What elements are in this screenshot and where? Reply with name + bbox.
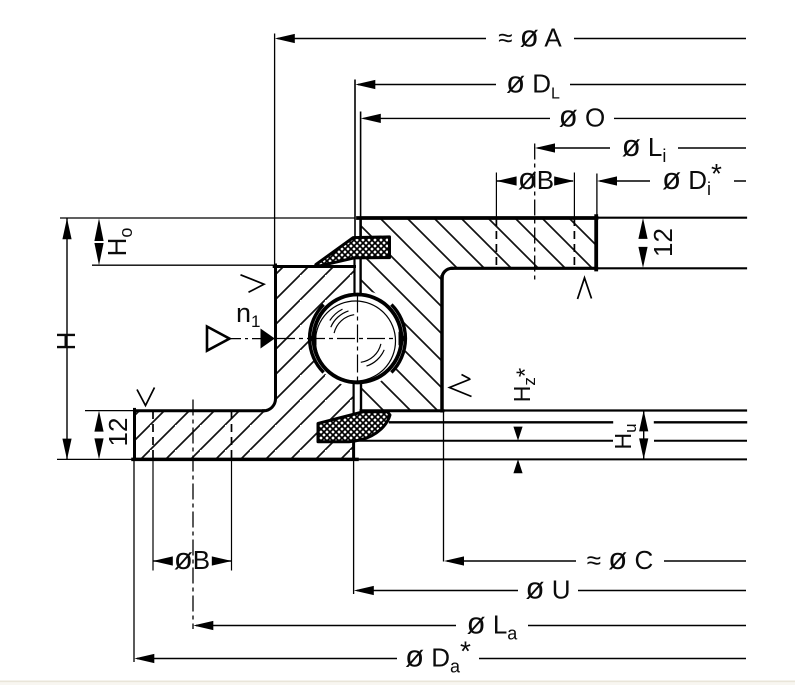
inner ring (right, top-mounted) section fill (361, 218, 595, 411)
extension lines (57, 34, 597, 663)
ext oDL vertical (354, 80, 356, 238)
ext oDi vertical (596, 174, 598, 217)
inner ring flange bottom (452, 267, 597, 270)
svg-text:øB: øB (174, 541, 210, 576)
raceway arc left (310, 305, 324, 373)
ball polish arcs lower-right (361, 344, 384, 366)
arrow oLa (193, 621, 213, 630)
dim oO line (364, 117, 747, 119)
lip right edge (352, 441, 355, 459)
svg-text:H: H (51, 332, 81, 351)
surface finish mark on flange top (137, 388, 155, 406)
inner ring fillet (442, 268, 452, 278)
svg-text:ø O: ø O (559, 99, 605, 134)
dim oU line (357, 590, 746, 592)
arrow Hu down (639, 438, 648, 459)
top bolt hole centerline (534, 144, 536, 284)
svg-text:ø Li: ø Li (622, 128, 667, 166)
ball centerline horizontal (277, 338, 394, 340)
lower seal (318, 412, 390, 442)
dim oLi line (538, 147, 746, 149)
arrow oDa (134, 654, 154, 663)
inner ring top surface (358, 216, 597, 220)
ext oDa vertical (133, 460, 135, 662)
dim oDL line (358, 84, 746, 86)
arrow Hz up (513, 459, 522, 473)
surface finish mark right body (450, 375, 472, 397)
dim oC line (447, 560, 746, 562)
svg-text:12: 12 (648, 228, 678, 257)
arrow H down (62, 439, 71, 460)
outer ring outline (133, 258, 746, 459)
arrow Ho up (94, 218, 103, 241)
ext oB top right (573, 173, 575, 219)
inner ring outline (358, 216, 746, 422)
arrow oA (275, 34, 295, 43)
svg-text:øB: øB (518, 161, 554, 196)
arrow H up (62, 218, 71, 239)
dimension lines (67, 39, 746, 659)
bottom page strip (0, 681, 795, 683)
ext oU vertical (353, 460, 355, 594)
outer ring left edge (274, 265, 277, 399)
ball centerline vertical (357, 295, 359, 383)
arrow Hu up (639, 410, 648, 431)
outer ring fillet (264, 399, 276, 411)
gap left edge above ball (353, 258, 355, 294)
gap right edge seal to ball (359, 258, 361, 294)
arrow 12R up (638, 218, 647, 239)
outer ring flange left edge (133, 409, 136, 459)
svg-text:≈ ø C: ≈ ø C (587, 541, 653, 576)
arrow oB top left (497, 176, 517, 185)
dim oDi line (600, 180, 746, 182)
inner ring recess line y422 (390, 421, 746, 423)
inner ring right edge (594, 216, 598, 269)
raceway cusp right (399, 332, 407, 346)
arrow 12L up (94, 411, 103, 432)
svg-text:ø U: ø U (526, 571, 571, 606)
arrow Ho down (94, 243, 103, 265)
bottom bolt hole dashed right (231, 411, 233, 459)
arrow oDi (597, 176, 617, 185)
ext oO vertical (360, 112, 362, 219)
raceway arc right (391, 305, 405, 373)
gap left edge below ball (353, 383, 355, 423)
dim oLa line (196, 625, 746, 627)
ext Ho bottom horizontal (92, 264, 274, 266)
arrow oDL (355, 80, 375, 89)
bottom bolt hole centerline (192, 400, 194, 630)
arrow Hz down (513, 427, 522, 441)
top surface extension right (597, 217, 747, 219)
ball polish arcs upper-left (330, 309, 354, 333)
flange bottom extension right (598, 267, 746, 269)
dim H shaft (66, 218, 68, 459)
arrow oLi (535, 143, 555, 152)
outer ring bottom surface (133, 458, 357, 462)
bottom surface extension right y410 (443, 409, 746, 411)
ext oB top left (495, 173, 497, 219)
n1 arrowhead (261, 329, 275, 349)
dim oA line (278, 38, 747, 40)
outer ring flange top (135, 409, 264, 412)
ext oA vertical (274, 34, 276, 266)
n1 rotation symbol open triangle (207, 327, 230, 351)
surface finish mark on outer ring left (241, 275, 265, 293)
svg-text:12: 12 (103, 418, 133, 447)
arrow oB bottom right (212, 556, 232, 565)
ext oC vertical (443, 412, 445, 562)
top bolt hole dashed left (495, 218, 497, 268)
ext flange top left horizontal (85, 410, 134, 412)
top bolt hole dashed right (573, 218, 575, 268)
arrow oB top right (554, 176, 574, 185)
dim Hu shaft (643, 411, 645, 460)
ext oB bottom right (231, 460, 233, 571)
outer ring top surface (274, 265, 354, 268)
arrow oU (354, 586, 374, 595)
dim oDa line (137, 658, 746, 660)
ext H top horizontal (60, 217, 355, 219)
arrow 12L down (94, 438, 103, 459)
inner ring body right edge (440, 277, 444, 411)
upper seal (316, 237, 390, 266)
raceway cusp left (309, 332, 317, 346)
surface finish mark under flange (578, 278, 592, 299)
ext oB bottom left (152, 460, 154, 571)
outer ring (left, bottom-mounted) section fill (135, 267, 355, 460)
gap right edge below ball (360, 383, 362, 411)
arrowheads (62, 34, 648, 663)
inner ring bottom surface (361, 409, 443, 412)
arrow oO (361, 114, 381, 123)
arrow oC (444, 556, 464, 565)
seal lip land top y441 (318, 440, 746, 442)
ext bottom left horizontal (57, 458, 133, 460)
dim oB bottom line (153, 560, 231, 562)
arrow 12R down (638, 247, 647, 268)
bottom bolt hole dashed left (152, 411, 154, 459)
arrow oB bottom left (153, 556, 173, 565)
dim oB top line (497, 180, 573, 182)
gap right edge above seal (359, 218, 362, 238)
n1 centerline (231, 338, 262, 340)
svg-text:≈ ø A: ≈ ø A (498, 19, 562, 54)
bottom surface extension right (357, 458, 746, 460)
ball (314, 295, 402, 383)
